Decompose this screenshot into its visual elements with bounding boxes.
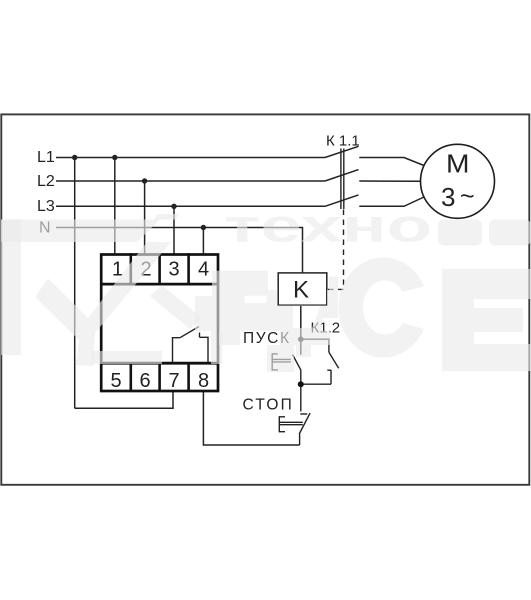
node N junction bbox=[201, 225, 206, 230]
svg-text:~: ~ bbox=[460, 183, 475, 211]
watermark big letter S bbox=[338, 257, 424, 357]
watermark overlay bbox=[1, 200, 531, 373]
svg-text:L2: L2 bbox=[37, 173, 55, 190]
terminal divider 3/4 bbox=[187, 253, 190, 284]
contactor K1.1 pole 2 blade bbox=[325, 170, 359, 181]
wire pole 2 to motor bbox=[359, 180, 420, 182]
pushbutton PUSK (NO) bbox=[272, 353, 301, 411]
contactor K1.1 linkage double bar bbox=[340, 149, 342, 210]
svg-text:8: 8 bbox=[198, 370, 209, 392]
node L1 junction 2 bbox=[112, 155, 117, 160]
terminal divider 7/8 bbox=[187, 363, 190, 392]
device bottom terminal row separator bbox=[101, 362, 218, 365]
dashed link contactor to coil K bbox=[328, 210, 344, 290]
svg-text:L1: L1 bbox=[37, 149, 55, 166]
contactor K1.1 pole 1 blade bbox=[325, 146, 359, 157]
wire terminal 8 down to stop branch bbox=[203, 392, 299, 446]
watermark big letter V bbox=[195, 271, 338, 372]
watermark icon left strip bbox=[1, 220, 21, 356]
wire pole 1 to motor bbox=[359, 158, 424, 166]
wire L2 drop to terminal 2 bbox=[144, 181, 146, 254]
wire L1 drop to bottom loop bbox=[74, 158, 76, 409]
border frame bbox=[1, 114, 529, 484]
coil K box bbox=[278, 273, 327, 305]
svg-text:K: K bbox=[293, 277, 309, 304]
watermark chevron U2 bbox=[150, 285, 202, 329]
svg-text:4: 4 bbox=[198, 259, 209, 281]
motor M1 circle bbox=[421, 144, 495, 218]
pushbutton STOP (NC) bbox=[279, 413, 310, 445]
wire N drop to terminal 4 bbox=[202, 228, 204, 255]
watermark E-diaeresis dot 2 bbox=[489, 220, 531, 246]
terminal divider 2/3 bbox=[158, 253, 161, 284]
svg-text:3: 3 bbox=[441, 182, 455, 212]
node L1 junction 1 bbox=[72, 155, 77, 160]
watermark big letter E bbox=[442, 269, 531, 371]
wire N line bbox=[56, 228, 303, 274]
wire L2 line bbox=[56, 180, 325, 182]
device outer box bbox=[101, 255, 218, 392]
wire L3 line bbox=[56, 205, 325, 207]
svg-text:7: 7 bbox=[169, 370, 180, 392]
device top terminal row separator bbox=[101, 283, 218, 286]
terminal divider 6/7 bbox=[158, 363, 161, 392]
terminal divider 5/6 bbox=[130, 363, 133, 392]
wire pole 3 to motor bbox=[359, 197, 424, 206]
contact K1.2 (NO, seal-in) bbox=[301, 339, 339, 384]
node junction above STOP bbox=[298, 381, 304, 387]
terminal divider 1/2 bbox=[130, 253, 133, 284]
wire coil K to start branch bbox=[300, 305, 302, 355]
wire L1 drop to terminal 1 bbox=[114, 158, 116, 255]
node L3 junction bbox=[171, 204, 176, 209]
svg-text:5: 5 bbox=[111, 370, 122, 392]
watermark icon top strip bbox=[1, 220, 160, 243]
watermark chevron U1 bbox=[35, 242, 171, 366]
svg-text:L3: L3 bbox=[37, 198, 55, 215]
internal relay contact of device bbox=[173, 327, 209, 363]
svg-text:6: 6 bbox=[140, 370, 151, 392]
node junction below K bbox=[298, 336, 304, 342]
wire L1 line bbox=[56, 157, 325, 159]
svg-text:M: M bbox=[446, 149, 470, 179]
svg-text:СТОП: СТОП bbox=[243, 397, 294, 414]
watermark E-diaeresis dot 1 bbox=[438, 220, 482, 246]
wire L3 drop to terminal 3 bbox=[173, 206, 175, 254]
node L2 junction bbox=[142, 178, 147, 183]
svg-text:3: 3 bbox=[169, 259, 180, 281]
svg-text:техно: техно bbox=[224, 200, 432, 252]
wire bottom loop to terminal 7 bbox=[75, 392, 173, 409]
contactor K1.1 pole 3 blade bbox=[325, 195, 359, 206]
